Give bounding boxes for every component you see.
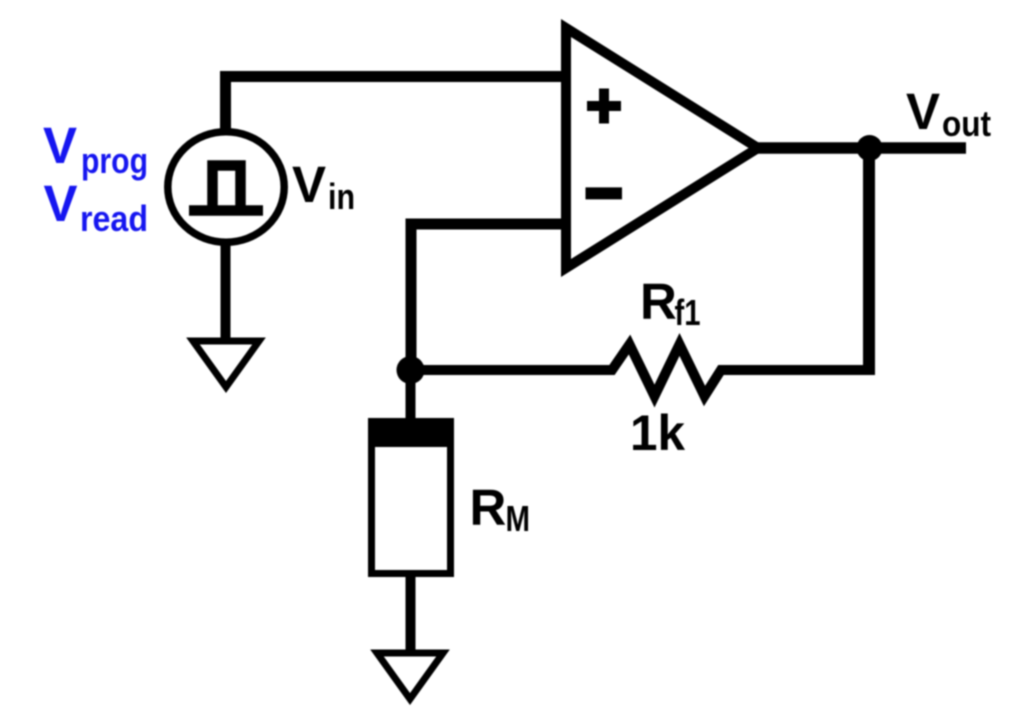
output node junction dot [857, 135, 883, 161]
svg-text:read: read [80, 198, 148, 239]
wire from inverting input to feedback node [411, 224, 566, 370]
op-amp minus input marking [586, 187, 623, 199]
ground symbol (memristor) [377, 653, 443, 699]
node A junction dot (inverting input / feedback) [397, 356, 425, 384]
svg-text:R: R [470, 479, 507, 536]
svg-text:in: in [328, 176, 355, 217]
memristor RM top electrode band [368, 418, 454, 447]
wire from source top to op-amp non-inverting input [226, 77, 567, 135]
svg-text:V: V [292, 156, 326, 213]
wire from node A down to memristor [406, 370, 416, 424]
feedback wire with resistor Rf1 zigzag and rise to output node [411, 345, 863, 397]
svg-text:1k: 1k [630, 405, 685, 461]
svg-text:f1: f1 [675, 292, 701, 333]
svg-text:V: V [43, 117, 77, 174]
op-amp U1 triangle [566, 28, 758, 268]
svg-text:out: out [942, 103, 991, 144]
svg-text:V: V [906, 83, 940, 140]
output wire [755, 142, 966, 154]
voltage source V1 circle [168, 132, 284, 242]
op-amp plus input marking [587, 89, 621, 124]
feedback vertical wire from output node [863, 152, 875, 375]
svg-text:V: V [44, 175, 78, 232]
wire from source bottom to ground [221, 240, 231, 341]
svg-text:M: M [506, 498, 531, 539]
svg-text:prog: prog [81, 140, 148, 181]
ground symbol (source) [193, 341, 259, 387]
svg-text:R: R [640, 273, 677, 330]
pulse waveform symbol inside source [189, 166, 263, 211]
memristor RM body outline [372, 422, 451, 574]
wire from memristor bottom to ground [406, 574, 416, 653]
